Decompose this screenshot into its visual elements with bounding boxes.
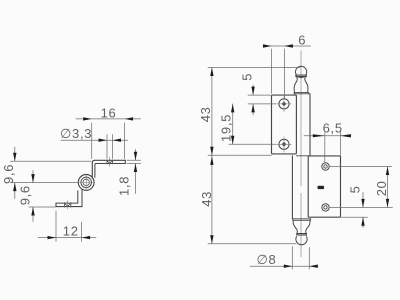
svg-text:12: 12: [63, 223, 79, 238]
bottom flange hole centerline tick: [67, 201, 69, 209]
svg-text:∅3,3: ∅3,3: [60, 126, 92, 141]
bottom finial collar band: [297, 234, 307, 235]
dimension 9,6 upper: [11, 147, 92, 199]
barrel left edge lower: [291, 156, 293, 219]
knuckle center cross: [79, 176, 93, 190]
barrel right edge upper: [309, 94, 311, 156]
svg-text:6: 6: [298, 33, 306, 48]
svg-text:1,8: 1,8: [116, 176, 131, 196]
dimension 9,6 lower: [29, 171, 56, 222]
upper leaf hole 2 outer: [279, 139, 289, 149]
top finial ball: [296, 66, 307, 77]
top finial bell bottom line: [294, 91, 308, 93]
bottom finial bell: [293, 220, 310, 233]
bottom finial collar top: [292, 219, 310, 221]
svg-text:20: 20: [374, 180, 389, 196]
upper leaf hole 1 diamond: [282, 102, 287, 107]
top flange hole countersink: [107, 160, 113, 163]
barrel joint line: [296, 155, 310, 157]
knuckle inner circle: [83, 179, 89, 185]
top finial base collar: [294, 92, 309, 93]
top flange hole edge lines: [107, 160, 113, 164]
dimension 1,8: [127, 150, 141, 194]
svg-text:5: 5: [348, 185, 363, 193]
bottom finial ball: [296, 237, 307, 245]
top finial collar band: [296, 75, 306, 77]
bottom flange top surface: [56, 202, 78, 204]
top flange outer surface: [92, 160, 125, 178]
lower leaf hole 3 outer: [322, 163, 329, 170]
bottom flange hole countersink: [64, 203, 71, 206]
svg-text:9,6: 9,6: [18, 185, 33, 205]
svg-text:6,5: 6,5: [323, 120, 343, 135]
lower leaf hole 4 inner: [324, 206, 327, 209]
svg-text:9,6: 9,6: [1, 164, 16, 184]
lower leaf slot: [318, 186, 325, 189]
svg-text:43: 43: [198, 106, 213, 122]
svg-text:∅8: ∅8: [257, 252, 277, 267]
upper leaf hole 2 crosslines: [277, 137, 292, 152]
dimension 19,5: [229, 104, 276, 144]
dimension 43 lower: [208, 155, 296, 244]
svg-text:16: 16: [101, 105, 117, 120]
lower leaf hole 4 outer: [322, 204, 329, 211]
top finial bell: [294, 77, 308, 93]
dimension 12: [38, 211, 96, 242]
strap inner vertical: [77, 191, 79, 203]
svg-text:19,5: 19,5: [218, 114, 233, 142]
upper leaf hole 1 outer: [279, 99, 289, 109]
upper leaf hole 1 crosslines: [277, 97, 292, 112]
knuckle outer circle: [78, 175, 94, 191]
bottom flange left end cap: [55, 203, 57, 207]
upper leaf hole 2 diamond: [282, 142, 287, 147]
dimension 5 lower right: [342, 193, 368, 228]
pin centerline: [300, 51, 302, 258]
top flange inner surface: [95, 164, 125, 178]
knuckle middle circle: [81, 177, 92, 188]
bottom flange hole edge lines: [65, 203, 71, 207]
lower leaf plate: [308, 156, 340, 217]
bottom flange bottom surface: [56, 206, 82, 208]
dimension 6,5: [304, 131, 351, 163]
top flange hole centerline tick: [109, 157, 111, 166]
lower leaf hole 3 inner: [324, 165, 327, 168]
dimension 16: [76, 119, 141, 159]
dimension 6 top: [264, 46, 311, 99]
dimension diameter 3,3: [61, 135, 128, 159]
svg-text:5: 5: [240, 73, 255, 81]
dimension 43 upper: [208, 68, 300, 157]
dimension 20: [330, 167, 393, 208]
top flange right end cap: [124, 160, 126, 163]
strap outer vertical: [81, 190, 83, 207]
svg-text:43: 43: [199, 191, 214, 207]
dimension 5 upper left: [248, 85, 276, 115]
dimension diameter 8: [250, 247, 318, 270]
upper leaf plate: [272, 95, 297, 154]
